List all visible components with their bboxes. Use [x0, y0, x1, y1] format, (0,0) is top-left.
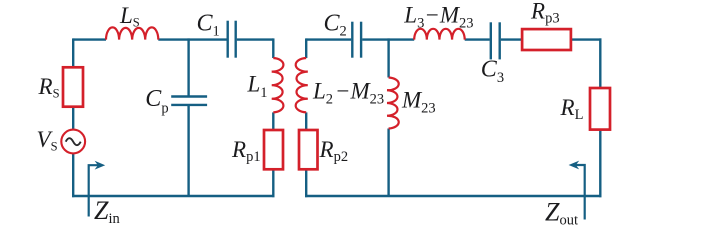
- svg-text:LS: LS: [119, 3, 140, 30]
- svg-text:L3−M23: L3−M23: [403, 2, 473, 31]
- svg-text:Rp3: Rp3: [530, 0, 560, 26]
- svg-text:Rp1: Rp1: [231, 137, 261, 165]
- svg-text:C1: C1: [197, 11, 220, 40]
- svg-text:C3: C3: [481, 57, 504, 86]
- svg-text:Zin: Zin: [94, 196, 120, 227]
- svg-text:RS: RS: [38, 74, 60, 100]
- svg-text:Cp: Cp: [145, 86, 168, 117]
- svg-text:Rp2: Rp2: [319, 137, 349, 165]
- svg-text:C2: C2: [324, 11, 347, 40]
- svg-text:RL: RL: [560, 95, 584, 123]
- svg-text:M23: M23: [401, 88, 436, 117]
- svg-text:L2 −M23: L2 −M23: [312, 79, 384, 108]
- svg-text:L1: L1: [247, 72, 268, 101]
- svg-text:VS: VS: [37, 127, 58, 153]
- svg-text:Zout: Zout: [545, 197, 578, 228]
